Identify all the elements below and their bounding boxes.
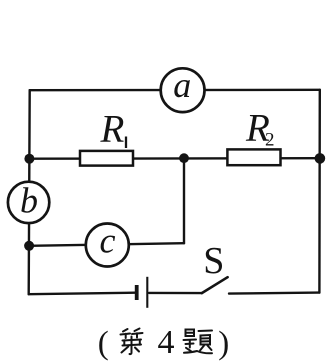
wire middle row through R1 and R2 (29, 157, 320, 160)
wire bottom: left corner to battery negative plate (29, 293, 135, 295)
node: left junction at meter c row (24, 241, 34, 251)
resistor R2 (227, 149, 280, 165)
switch S blade (open) (202, 277, 228, 293)
node: left junction on middle row (24, 154, 34, 164)
svg-text:c: c (100, 221, 116, 261)
svg-text:(: ( (98, 326, 109, 362)
wire left side: top corner down to bottom corner (29, 90, 30, 294)
wire bottom: battery positive plate to switch pivot (149, 292, 202, 295)
svg-text:a: a (173, 65, 191, 105)
meter a (in top wire) (161, 68, 205, 112)
svg-text:2: 2 (265, 130, 275, 151)
battery positive plate (long thin) (146, 277, 148, 308)
svg-text:4: 4 (158, 324, 175, 361)
svg-text:): ) (218, 326, 229, 362)
wire vertical from middle junction down to meter c row (183, 158, 185, 243)
caption hanzi TI (题) drawn strokes (184, 330, 213, 354)
svg-text:S: S (203, 240, 224, 282)
wire top: left corner to right corner (30, 89, 320, 92)
caption hanzi DI (第) drawn strokes (121, 329, 143, 355)
battery negative plate (short thick) (135, 285, 139, 300)
wire right side: top corner down to bottom corner (318, 90, 321, 293)
resistor R1 (80, 151, 133, 166)
wire bottom: switch fixed contact to right corner (229, 293, 319, 294)
node: middle junction between R1 and R2 (179, 153, 189, 163)
node: right junction on right wire (315, 153, 326, 164)
meter b (left branch) (8, 182, 49, 223)
label R1 subscript 1 (125, 137, 127, 149)
svg-text:b: b (20, 181, 38, 221)
wire meter c row: left node to middle vertical (29, 243, 184, 246)
svg-text:R: R (100, 108, 125, 151)
meter c (middle branch) (86, 224, 129, 267)
caption: (第 4 题) (98, 324, 229, 362)
